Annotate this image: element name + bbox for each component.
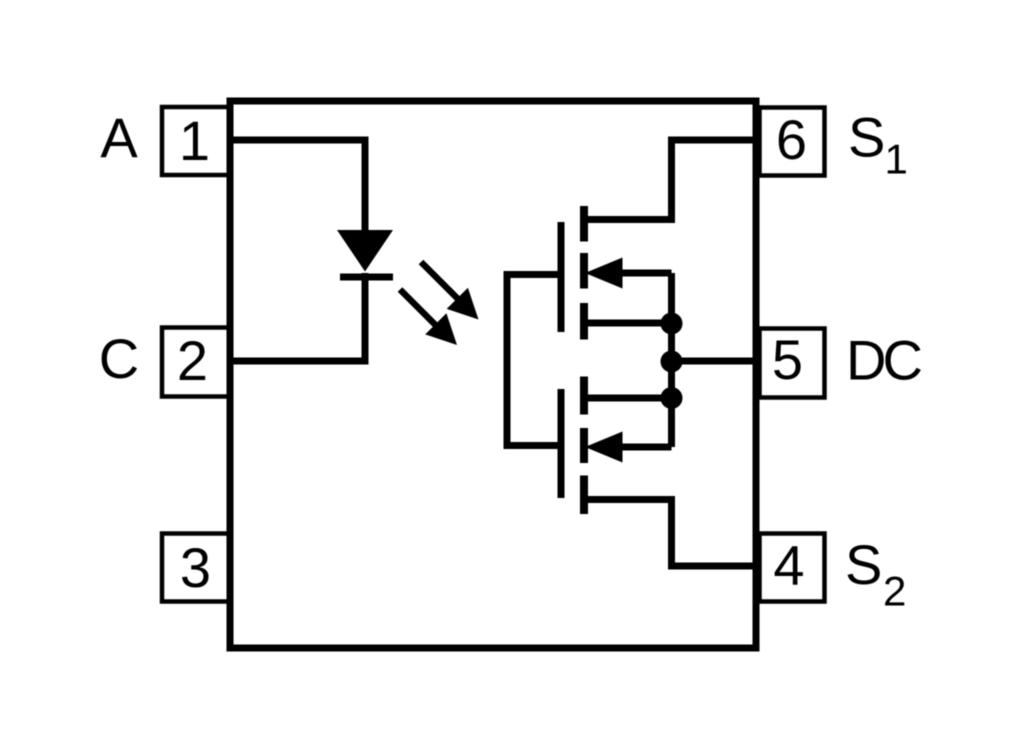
svg-text:2: 2 bbox=[177, 329, 208, 392]
svg-text:1: 1 bbox=[885, 136, 908, 183]
svg-text:1: 1 bbox=[179, 109, 210, 172]
svg-text:4: 4 bbox=[773, 534, 804, 597]
svg-text:C: C bbox=[883, 329, 923, 392]
svg-text:5: 5 bbox=[772, 328, 803, 391]
svg-text:A: A bbox=[100, 106, 138, 169]
svg-text:3: 3 bbox=[180, 536, 211, 599]
svg-text:D: D bbox=[846, 329, 886, 392]
svg-text:C: C bbox=[99, 327, 139, 390]
svg-text:2: 2 bbox=[883, 568, 906, 615]
svg-text:S: S bbox=[848, 106, 885, 169]
svg-text:6: 6 bbox=[776, 108, 807, 171]
svg-text:S: S bbox=[845, 533, 882, 596]
